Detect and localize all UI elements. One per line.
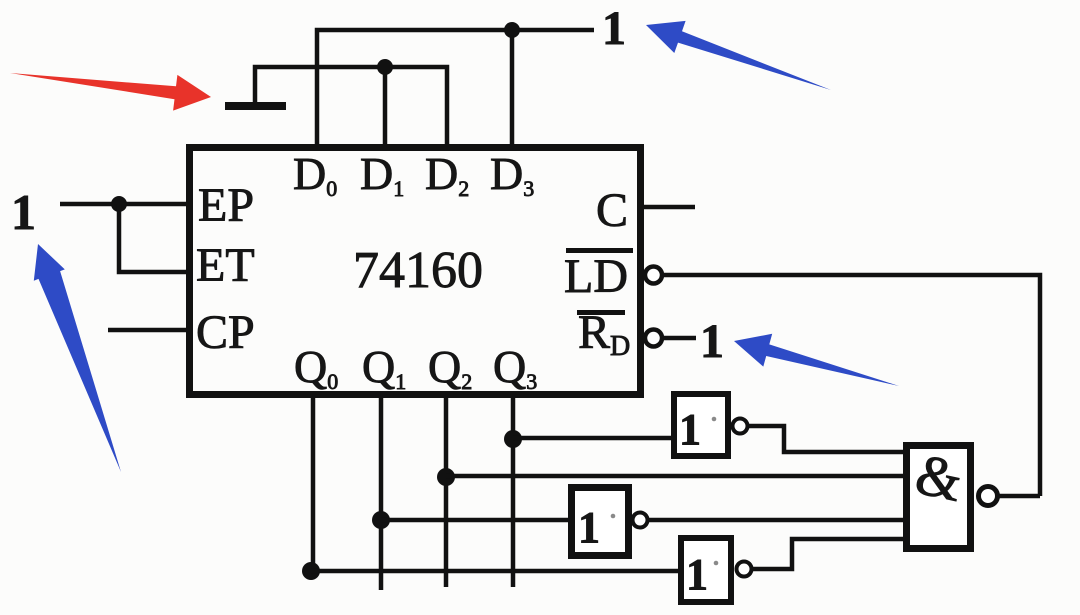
node junction Q1: [372, 511, 390, 529]
NAND G4 output bubble: [979, 487, 998, 506]
wire Q3 to inverter G1: [513, 436, 674, 441]
overline of RD: [577, 310, 625, 315]
wire D1 vertical: [383, 67, 388, 144]
inverter G3 bubble: [737, 562, 752, 577]
node junction Q3: [504, 430, 522, 448]
wire Q1 vertical: [379, 398, 384, 590]
svg-text:LD: LD: [564, 250, 628, 303]
node junction Q2: [437, 468, 455, 486]
wire G2 output to NAND G4: [648, 518, 906, 523]
wire EP input stub: [60, 202, 186, 207]
pin bubble LD: [645, 267, 662, 284]
svg-text:1: 1: [686, 550, 708, 599]
wire Q2 to NAND G4: [446, 474, 906, 479]
wire G1 output to NAND G4: [748, 426, 906, 452]
node junction D3 on top line: [504, 22, 520, 38]
svg-text:ET: ET: [196, 239, 255, 292]
wire Q3 vertical: [511, 398, 516, 587]
ground symbol: [225, 102, 286, 110]
wire D3 vertical: [510, 30, 515, 144]
wire LD feedback top: [662, 275, 1040, 496]
wire EP node to ET pin: [119, 204, 186, 272]
artifact tick in G1: [712, 417, 717, 422]
artifact tick in G2: [611, 514, 616, 519]
inverter G1 bubble: [733, 419, 748, 434]
inverter G3 box: [681, 538, 731, 602]
artifact tick in G3: [714, 561, 719, 566]
wire C output stub: [644, 205, 695, 210]
pin bubble RD: [645, 330, 662, 347]
inverter G2 box: [572, 488, 629, 556]
blue annotation arrow middle right to 1: [734, 334, 899, 386]
wire RD stub: [662, 336, 696, 341]
svg-text:1: 1: [578, 503, 600, 552]
svg-text:1: 1: [700, 315, 724, 368]
wire Q0 vertical: [311, 398, 316, 572]
wire CP input stub: [108, 328, 186, 333]
svg-text:74160: 74160: [353, 242, 483, 299]
inverter G2 bubble: [633, 513, 648, 528]
wire Q2 vertical: [444, 398, 449, 587]
svg-text:1: 1: [11, 184, 36, 240]
svg-text:C: C: [596, 184, 628, 237]
node junction on EP wire: [111, 196, 127, 212]
wire Q1 to inverter G2: [381, 518, 571, 523]
svg-text:1: 1: [602, 2, 626, 55]
node junction Q0: [302, 562, 320, 580]
node junction D1 on ground line: [377, 59, 393, 75]
NAND gate G4 box: [907, 446, 971, 549]
wire Q0 to inverter G3: [311, 569, 681, 574]
inverter G1 box: [674, 394, 728, 456]
svg-text:EP: EP: [198, 179, 254, 232]
blue annotation arrow top right to 1: [646, 21, 831, 90]
svg-text:1: 1: [679, 405, 701, 454]
wire ground tie line for D1 D2: [255, 67, 447, 144]
red annotation arrow to ground: [10, 73, 211, 111]
wire NAND output to feedback: [998, 494, 1040, 499]
blue annotation arrow left to 1: [34, 244, 121, 472]
overline of LD: [566, 248, 633, 253]
wire G3 output to NAND G4: [752, 539, 906, 569]
wire net "1" top : D0-D3 tie line: [317, 30, 594, 144]
IC U1 74160 body: [190, 148, 641, 395]
svg-text:CP: CP: [196, 306, 255, 359]
